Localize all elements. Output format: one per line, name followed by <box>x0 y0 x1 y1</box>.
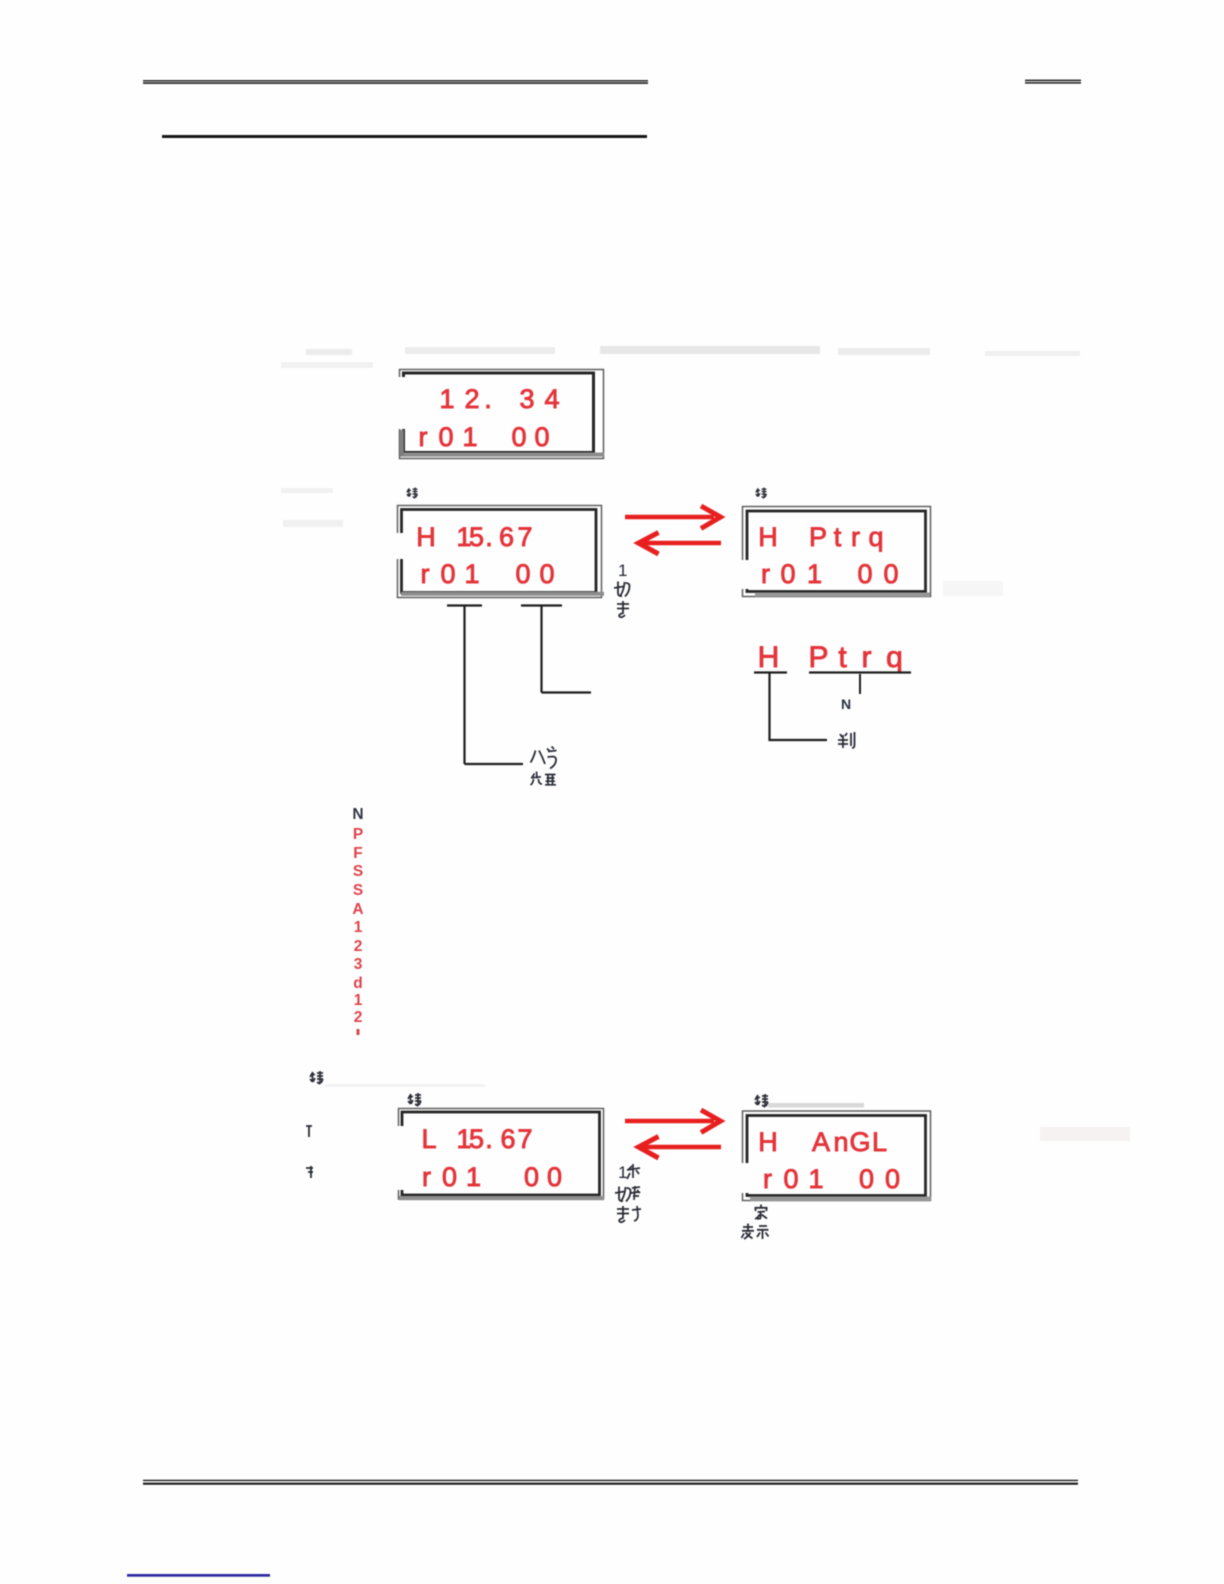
right transfer arrow upper pair <box>625 506 721 529</box>
tiny clipped kanji above box 2 <box>407 488 418 499</box>
label 判 <box>838 732 855 748</box>
svg-text:0: 0 <box>883 559 898 589</box>
left edge clipped fragment 1 <box>306 1126 312 1137</box>
label 表示 below box 5 <box>742 1224 769 1240</box>
clipped red mark at column bottom <box>357 1029 360 1035</box>
svg-text:2: 2 <box>354 1009 363 1026</box>
svg-text:4: 4 <box>544 384 559 414</box>
svg-text:H: H <box>758 641 780 674</box>
bottom left blue footnote line <box>127 1574 270 1577</box>
kanji 締 left margin <box>310 1071 323 1084</box>
left transfer arrow upper pair <box>639 533 722 555</box>
svg-text:A: A <box>812 1127 830 1157</box>
svg-text:1: 1 <box>462 422 477 452</box>
svg-text:L: L <box>421 1124 436 1154</box>
right transfer arrow lower pair <box>625 1110 721 1133</box>
svg-text:q: q <box>886 641 903 674</box>
display box 5 red text line 1: H AnGL <box>758 1127 887 1157</box>
svg-text:7: 7 <box>517 522 532 552</box>
svg-text:0: 0 <box>859 1164 874 1194</box>
display box 1 red text line 2: r01 00 <box>419 422 550 452</box>
svg-text:t: t <box>838 641 847 674</box>
display box 5 red text line 2: r01 00 <box>763 1164 900 1194</box>
scan smudge band above box 1 <box>281 346 1130 1141</box>
svg-text:2: 2 <box>464 384 479 414</box>
svg-text:0: 0 <box>511 422 526 452</box>
svg-text:1: 1 <box>618 561 627 580</box>
svg-text:P: P <box>809 522 827 552</box>
svg-text:6: 6 <box>499 522 514 552</box>
svg-text:0: 0 <box>885 1164 900 1194</box>
svg-text:0: 0 <box>440 559 455 589</box>
svg-text:0: 0 <box>539 559 554 589</box>
svg-text:A: A <box>352 901 363 918</box>
svg-text:t: t <box>834 522 842 552</box>
callout bracket 1 under box 2 <box>447 606 523 765</box>
display box 2 frame <box>398 506 605 598</box>
svg-text:.: . <box>484 384 492 414</box>
svg-text:q: q <box>868 522 883 552</box>
clipped label バラ <box>531 747 557 769</box>
label 定 below box 5 <box>755 1205 768 1220</box>
white patch on box 5 left border lower part <box>740 1163 750 1193</box>
svg-text:S: S <box>353 863 363 880</box>
svg-text:3: 3 <box>519 384 534 414</box>
tiny clipped kanji above box 5 <box>755 1094 768 1107</box>
svg-text:d: d <box>353 975 362 992</box>
svg-text:1: 1 <box>807 559 822 589</box>
svg-text:1: 1 <box>354 919 363 936</box>
display box 3 red text line 1: H Ptrq <box>758 522 883 552</box>
svg-text:r: r <box>761 559 770 589</box>
svg-text:5: 5 <box>469 1124 484 1154</box>
svg-text:1: 1 <box>466 1162 481 1192</box>
left edge clipped fragment 2 <box>306 1166 313 1178</box>
display box 1 frame <box>400 370 605 459</box>
svg-text:r: r <box>421 559 430 589</box>
svg-text:N: N <box>352 806 363 823</box>
svg-text:H: H <box>758 522 778 552</box>
svg-text:r: r <box>851 522 860 552</box>
display box 4 red text line 1: L 15.67 <box>421 1124 532 1154</box>
top right short double rule <box>1025 80 1081 83</box>
underline under H <box>754 671 787 673</box>
svg-text:r: r <box>422 1162 431 1192</box>
svg-text:1: 1 <box>808 1164 823 1194</box>
svg-text:.: . <box>485 522 493 552</box>
white patch on box 4 left border <box>395 1126 405 1190</box>
svg-text:N: N <box>841 696 851 712</box>
svg-text:0: 0 <box>524 1162 539 1192</box>
svg-text:r: r <box>763 1164 772 1194</box>
svg-text:1: 1 <box>439 384 454 414</box>
svg-text:G: G <box>849 1127 870 1157</box>
svg-text:r: r <box>862 641 872 674</box>
svg-text:0: 0 <box>857 559 872 589</box>
underline under Ptrq <box>809 671 911 673</box>
svg-text:5: 5 <box>469 522 484 552</box>
white patch on box 2 left border middle <box>394 533 404 559</box>
left transfer arrow lower pair <box>639 1137 722 1159</box>
svg-text:0: 0 <box>534 422 549 452</box>
svg-text:.: . <box>485 1124 493 1154</box>
display box 4 red text line 2: r01 00 <box>422 1162 562 1192</box>
svg-text:3: 3 <box>354 956 363 973</box>
leader line from H down to label <box>770 673 828 741</box>
svg-text:H: H <box>416 522 436 552</box>
svg-text:7: 7 <box>517 1124 532 1154</box>
display box 2 red text line 2: r01 00 <box>421 559 555 589</box>
svg-text:H: H <box>758 1127 778 1157</box>
box 1 left bottom stub <box>400 430 404 456</box>
display box 5 frame <box>743 1111 932 1201</box>
standalone red label H Ptrq <box>758 641 903 674</box>
svg-text:L: L <box>872 1127 887 1157</box>
svg-text:r: r <box>419 422 428 452</box>
svg-text:P: P <box>353 826 363 843</box>
svg-text:0: 0 <box>515 559 530 589</box>
title underline <box>162 135 647 138</box>
white patch erasing left border of box 1 <box>394 377 406 429</box>
tick below Ptrq underline <box>859 674 861 694</box>
bottom double rule <box>143 1480 1078 1483</box>
svg-text:0: 0 <box>547 1162 562 1192</box>
svg-text:0: 0 <box>438 422 453 452</box>
clipped label 先頭 <box>531 772 557 786</box>
callout bracket 2 under box 2 <box>521 606 591 693</box>
svg-text:6: 6 <box>500 1124 515 1154</box>
svg-text:n: n <box>833 1127 848 1157</box>
svg-text:0: 0 <box>442 1162 457 1192</box>
svg-text:S: S <box>353 882 363 899</box>
svg-text:F: F <box>353 845 362 862</box>
svg-text:P: P <box>808 641 828 674</box>
kanji 締 above box 4 <box>408 1093 421 1106</box>
white patch on box 3 left border lower part <box>740 560 750 589</box>
svg-text:1: 1 <box>618 1163 627 1182</box>
display box 4 frame <box>399 1109 605 1201</box>
svg-text:1: 1 <box>354 992 363 1009</box>
display box 3 frame <box>743 507 931 597</box>
display box 3 red text line 2: r01 00 <box>761 559 899 589</box>
svg-text:0: 0 <box>780 559 795 589</box>
svg-text:0: 0 <box>783 1164 798 1194</box>
top double rule <box>143 81 648 83</box>
svg-text:2: 2 <box>354 938 363 955</box>
tiny clipped kanji above box 3 <box>756 488 767 499</box>
display box 2 red text line 1: H 15.67 <box>416 522 532 552</box>
display box 1 red text line 1: 12. 34 <box>439 384 559 414</box>
svg-text:1: 1 <box>464 559 479 589</box>
